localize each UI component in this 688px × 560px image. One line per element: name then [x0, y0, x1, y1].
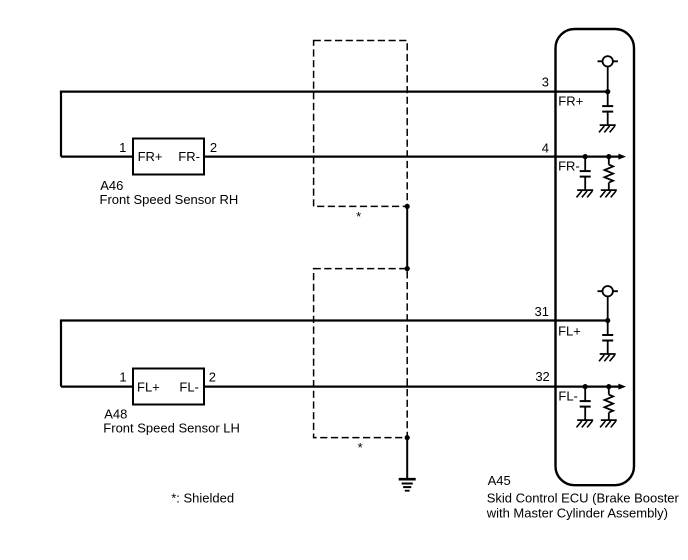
ground (chassis, FR+ filter): [599, 125, 616, 132]
power source symbol (FR+ bias): [598, 56, 618, 92]
resistor (FL- load): [605, 387, 614, 421]
wire shield drain to ground: [406, 438, 408, 479]
capacitor (FR- filter): [580, 157, 591, 191]
capacitor (FL+ filter): [602, 321, 613, 355]
wire FR+ sensor pin 1 to corner (horizontal): [61, 156, 133, 158]
node shield bottom (junction dot): [405, 435, 410, 440]
wire FL- sensor pin 2 to ECU pin 32: [204, 386, 622, 388]
wire FL+ sensor pin 1 to corner (horizontal): [61, 386, 133, 388]
svg-text:2: 2: [209, 369, 216, 384]
svg-text:31: 31: [535, 304, 549, 319]
node FR- resistor junction: [606, 154, 611, 159]
node FR+ junction: [605, 89, 610, 94]
node FL- capacitor junction: [583, 384, 588, 389]
svg-text:FL+: FL+: [137, 380, 160, 395]
capacitor (FL- filter): [580, 387, 591, 421]
svg-text:*: Shielded: *: Shielded: [171, 491, 234, 506]
node FR- capacitor junction: [583, 154, 588, 159]
ground (chassis, FL- resistor): [600, 420, 617, 427]
svg-text:FR-: FR-: [558, 158, 580, 173]
wire FR- sensor pin 2 to ECU pin 4: [204, 156, 622, 158]
ground (chassis, FR- capacitor): [577, 190, 594, 197]
node FL+ junction: [605, 318, 610, 323]
ground (earth) for shield: [399, 479, 416, 491]
svg-text:*: *: [358, 440, 363, 455]
svg-text:Front Speed Sensor LH: Front Speed Sensor LH: [103, 420, 240, 435]
svg-text:FL-: FL-: [179, 380, 199, 395]
svg-text:Skid Control ECU (Brake Booste: Skid Control ECU (Brake Booster: [487, 491, 680, 506]
svg-text:1: 1: [119, 369, 126, 384]
svg-text:FL-: FL-: [558, 389, 578, 404]
node FL- resistor junction: [606, 384, 611, 389]
svg-text:A48: A48: [104, 406, 127, 421]
node shield middle (junction dot): [405, 266, 410, 271]
svg-text:with Master Cylinder Assembly): with Master Cylinder Assembly): [486, 506, 668, 521]
svg-text:FR-: FR-: [178, 149, 200, 164]
svg-text:FR+: FR+: [138, 149, 163, 164]
svg-text:A46: A46: [100, 178, 123, 193]
sensor A48 box: [133, 369, 204, 405]
arrow FR- signal into ECU: [618, 154, 626, 160]
ground (chassis, FL+ filter): [599, 354, 616, 361]
arrow FL- signal into ECU: [618, 384, 626, 390]
svg-text:A45: A45: [488, 473, 511, 488]
svg-text:2: 2: [210, 140, 217, 155]
ground (chassis, FL- capacitor): [577, 420, 594, 427]
wire FR+ to ECU pin 3 (horizontal): [60, 90, 608, 92]
svg-text:3: 3: [542, 75, 549, 90]
node shield top (junction dot): [405, 204, 410, 209]
svg-text:Front Speed Sensor RH: Front Speed Sensor RH: [100, 192, 239, 207]
ground (chassis, FR- resistor): [600, 190, 617, 197]
svg-text:FL+: FL+: [558, 324, 581, 339]
svg-text:FR+: FR+: [558, 94, 583, 109]
shield box (dashed) around FR wires: [314, 41, 408, 207]
svg-text:32: 32: [535, 369, 549, 384]
wire FR+ vertical riser: [60, 92, 62, 157]
wire FL+ vertical riser: [60, 321, 62, 387]
svg-text:1: 1: [119, 140, 126, 155]
wire shield drain (between shield boxes): [406, 206, 408, 268]
resistor (FR- load): [605, 157, 614, 191]
power source symbol (FL+ bias): [598, 286, 618, 321]
svg-text:4: 4: [542, 140, 549, 155]
svg-text:*: *: [356, 209, 361, 224]
shield box (dashed) around FL wires: [314, 269, 408, 438]
sensor A46 box: [133, 139, 204, 175]
capacitor (FR+ filter): [602, 92, 613, 126]
wire FL+ to ECU pin 31 (horizontal): [60, 319, 608, 321]
ECU A45 connector outline: [556, 29, 635, 485]
